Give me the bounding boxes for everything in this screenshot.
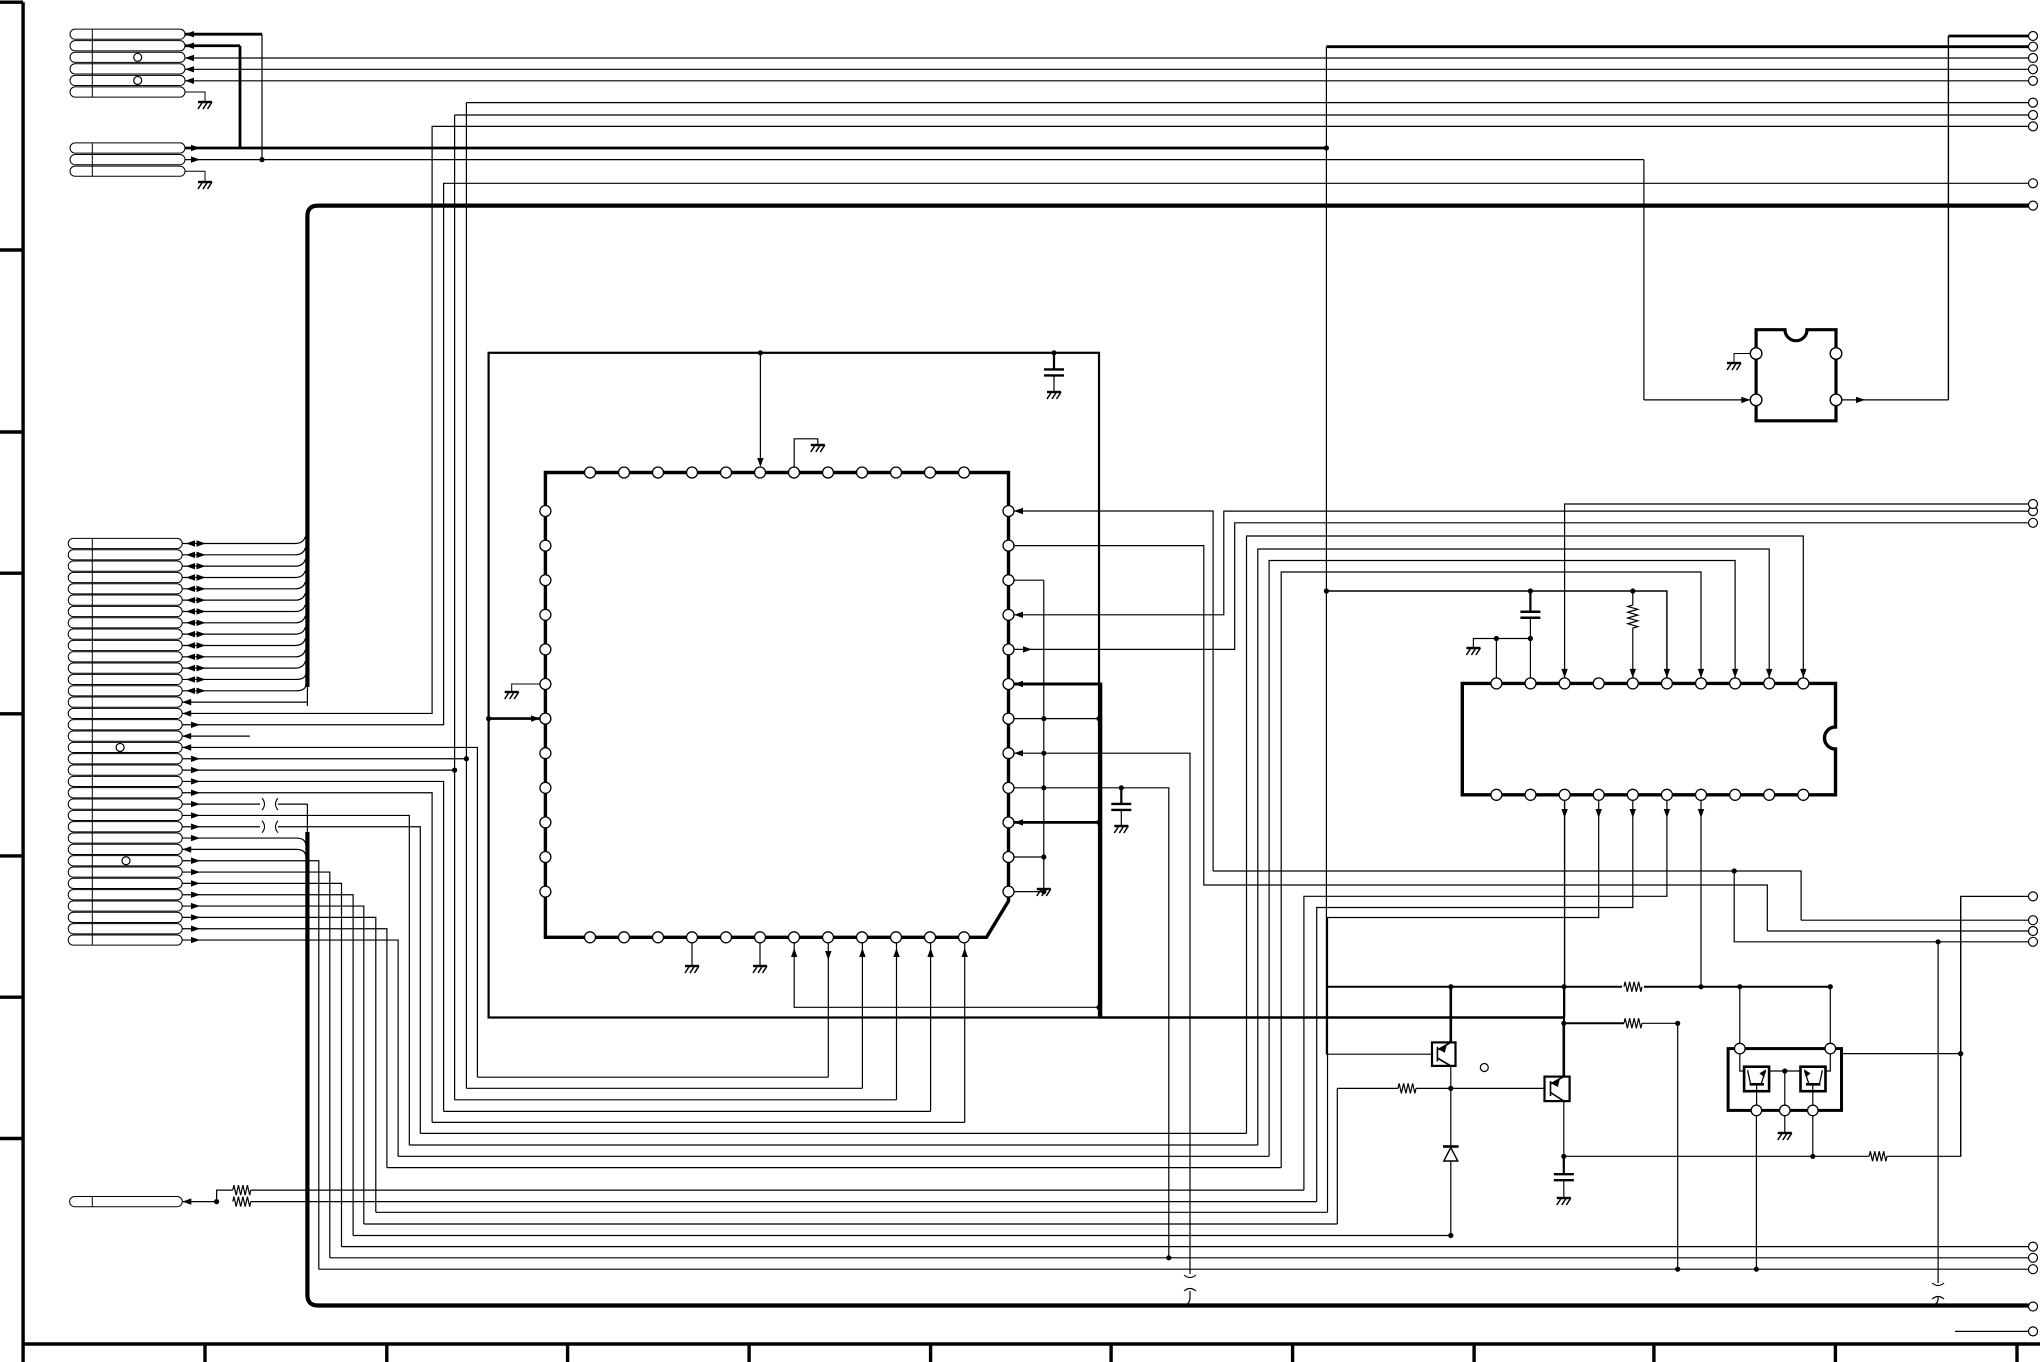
IC1 right pin 10 — [1003, 817, 1014, 828]
wire CN3 pin 9 into bus — [182, 627, 305, 634]
wire CN3 pin 30 staircase x329.8 — [182, 872, 330, 1258]
transistor Q3 box — [1744, 1067, 1769, 1092]
wire CN3 pin 16 riser x432 to y126.4 — [182, 126, 2028, 713]
wire pack inter-box — [1769, 1070, 1800, 1072]
wire frame left tick 6 — [0, 996, 23, 999]
wire band y1246.6 to circle — [342, 1246, 2029, 1248]
wire pack line y1053.6 to x1960.7 — [1842, 1053, 1961, 1055]
junction dot Q1 emitter node — [1448, 984, 1453, 989]
wire band y1235.5 — [353, 1235, 1451, 1237]
wire CN3 pin 7 into bus — [182, 604, 305, 611]
transistor Q2 box — [1545, 1077, 1570, 1102]
wire CN3 pin 14 into thin x307 b — [182, 685, 306, 691]
junction dot Q2 emitter node — [1561, 1021, 1566, 1026]
wire CN3 pin 24 link tail — [278, 803, 307, 805]
IC1 bottom pin 12 — [959, 932, 970, 943]
arrow netB into X1 pin2 — [1741, 397, 1750, 403]
wire frame bottom tick 1 — [203, 1344, 206, 1362]
resonator X1 pin4 right — [1830, 394, 1842, 406]
wire IC1 bottom pin11 riser — [930, 943, 932, 1112]
wire y1023.3 after R2 — [1642, 1022, 1678, 1024]
wire frame bottom tick 8 — [1472, 1344, 1475, 1362]
wire frame left tick 5 — [0, 854, 23, 857]
pack bottom pin right — [1808, 1105, 1819, 1116]
IC1 top pin 5 — [721, 467, 732, 478]
IC2 bottom pin 10 — [1798, 789, 1809, 800]
connector CN3 pin 9 pill — [68, 629, 182, 639]
wire Q4 emitter to pack pin5 — [1812, 1084, 1814, 1105]
wire net B vertical x1643 — [1643, 160, 1645, 400]
connector CN3 pin 36 pill — [68, 935, 182, 945]
connector CN3 pin 3 pill — [68, 561, 182, 571]
terminal circle right y102.6 — [2029, 98, 2038, 107]
wire band y1111.4 — [444, 1110, 931, 1112]
connector CN3 pin 31 pill — [68, 878, 182, 888]
connector CN3 pin 28 pill — [68, 844, 182, 854]
wire y871 across — [1213, 871, 1801, 920]
wire vertical x466.4 y102.6 to band — [465, 103, 467, 1089]
junction dot x1960.7 pack line — [1958, 1051, 1963, 1056]
wire pack bottom-left pin drop — [1755, 1116, 1757, 1270]
wire IC1 bottom pin12 riser — [964, 943, 966, 1123]
wire CN3 pin 20 join x466.4 — [182, 758, 466, 760]
wire CN3 pin 27 curve into bus2 — [182, 838, 306, 845]
IC1 body square — [545, 473, 1008, 938]
terminal circle right y126.4 — [2029, 122, 2038, 131]
IC1 top pin 6 — [755, 467, 766, 478]
connector CN1 pin 4 pill — [70, 64, 185, 74]
transistor Q4 symbol — [1805, 1070, 1823, 1084]
IC2 bottom pin 2 — [1525, 789, 1536, 800]
wire diode down to band — [1450, 1161, 1452, 1236]
IC1 bottom pin 11 — [925, 932, 936, 943]
IC1 bottom pin 8 — [823, 932, 834, 943]
wire x1938 drop — [1937, 942, 1939, 1283]
wire pack bottom-mid pin to ground — [1784, 1116, 1786, 1133]
wire net B CN2 pin2 to x1643 — [185, 159, 1644, 161]
wire frame bottom tick 11 — [2015, 1344, 2018, 1362]
transistor Q1 symbol — [1437, 1042, 1450, 1066]
IC2 top pin 10 — [1798, 678, 1809, 689]
junction dot pack mid — [1782, 1068, 1787, 1073]
connector CN3 pin 24 pill — [68, 799, 182, 809]
IC1 right pin 8 — [1003, 748, 1014, 759]
wire vertical x262 pin1 branch — [261, 34, 263, 159]
IC1 top pin 7 — [789, 467, 800, 478]
terminal circle right pin3 — [2029, 54, 2038, 63]
connector CN3 test point circle B — [122, 857, 130, 865]
wire band y1269.2 to circle — [319, 1268, 2029, 1270]
wire CN3 pin 23 down x432.1 to band — [182, 793, 432, 1123]
connector CN3 pin 29 pill — [68, 856, 182, 866]
IC1 top pin 1 — [585, 467, 596, 478]
IC2 bottom pin 3 — [1559, 789, 1570, 800]
IC1 bottom pin 1 — [585, 932, 596, 943]
IC1 bottom pin 5 — [721, 932, 732, 943]
wire IC2 pins1-2 gnd line y638.5 — [1473, 639, 1530, 649]
junction dot pack pin5 — [1810, 1154, 1815, 1159]
connector CN3 pin 2 pill — [68, 550, 182, 560]
wire y115 to right edge — [455, 114, 2029, 116]
junction dot x1564 top — [1561, 984, 1566, 989]
wire R3 corner drop x1337.3 — [1336, 1088, 1338, 1224]
wire CN3 pin 2 into bus — [182, 548, 305, 555]
terminal circle right y1331.4 — [2029, 1327, 2038, 1336]
ground IC1 top pin7 L-wire — [794, 439, 818, 467]
connector CN3 pin 27 pill — [68, 833, 182, 843]
ground C4 — [1557, 1198, 1571, 1205]
IC1 left pin 4 — [540, 609, 551, 620]
connector CN2 divider — [91, 143, 93, 176]
connector CN3 pin 26 pill — [68, 822, 182, 832]
wire IC1 right pin12 to gnd chain — [1014, 891, 1044, 893]
terminal circle right y46.7 — [2029, 42, 2038, 51]
wire frame bottom tick 6 — [1109, 1344, 1112, 1362]
wire IC2 bottom pin4 to band — [1328, 800, 1599, 1212]
connector CN3 pin 22 pill — [68, 776, 182, 786]
wire frame bottom tick 9 — [1652, 1344, 1655, 1362]
wire IC1 right pin10 thick to ring — [1014, 821, 1099, 824]
IC2 bottom pin 7 — [1696, 789, 1707, 800]
connector CN3 pin 32 pill — [68, 890, 182, 900]
wire y931 to right edge — [1767, 930, 2028, 932]
wire CN3 pin 10 into bus — [182, 638, 305, 645]
wire CN4 to junction — [182, 1201, 216, 1203]
pack bottom pin left — [1751, 1105, 1762, 1116]
wire IC1 bottom pin4 ground stub — [691, 943, 693, 966]
junction dot x1938 — [1936, 939, 1941, 944]
connector CN3 pin 19 pill — [68, 742, 182, 752]
thick arrow into IC2 pin x1666.9 — [1664, 669, 1670, 678]
wire CN3 pin 6 into bus — [182, 593, 305, 600]
resistor R1 in y986.7 line — [1622, 980, 1644, 994]
IC1 bottom pin 10 — [891, 932, 902, 943]
wire x1938 into bus — [1930, 1297, 1938, 1306]
wire CN3 pin 8 into bus — [182, 616, 305, 623]
IC2 bottom pin 4 — [1593, 789, 1604, 800]
IC1 right pin 6 — [1003, 679, 1014, 690]
junction dot diode band — [1448, 1233, 1453, 1238]
terminal circle right y1246.6 — [2029, 1242, 2038, 1251]
connector CN3 pin 15 pill — [68, 697, 182, 707]
junction dot IC2 pin7 net — [1698, 984, 1703, 989]
wire x1677.7 drop to band — [1677, 1023, 1679, 1269]
wire IC2 pin3 riser to y504 — [1565, 504, 2029, 678]
connector CN1 test point circle pin5 — [134, 76, 142, 84]
IC1 right pin 2 — [1003, 540, 1014, 551]
bus thick bottom horizontal y1305.5 — [318, 1303, 2029, 1307]
capacitor C3 at x1530.4 — [1528, 588, 1533, 593]
connector CN2 pin 3 pill — [70, 166, 185, 176]
IC1 left pin 2 — [540, 540, 551, 551]
wire net y549 V1257.8 — [1258, 549, 1769, 1145]
pack top pin right — [1825, 1043, 1836, 1054]
resistor R4 vertical x1632.8 — [1630, 588, 1635, 593]
wire thin x307.4 lower segment — [306, 804, 308, 833]
IC1 left pin 12 — [540, 886, 551, 897]
connector CN3 pin 5 pill — [68, 584, 182, 594]
resistor R7 bottom — [233, 1197, 251, 1207]
wire IC1 right pin9 cap branch corner x1168.8 — [1014, 788, 1169, 1258]
wire Q1 collector down — [1450, 1066, 1452, 1147]
wire frame bottom tick 5 — [929, 1344, 932, 1362]
wire x1190 into bottom bus — [1182, 1291, 1190, 1306]
wire IC1 bottom pin10 riser — [896, 943, 898, 1100]
IC1 left pin 8 — [540, 748, 551, 759]
terminal circle right y931 — [2029, 927, 2038, 936]
wire ring to IC1 left pin7 thick arrow — [489, 717, 540, 720]
IC2 top pin 2 — [1525, 678, 1536, 689]
wire band y1088.3 — [466, 1087, 862, 1089]
wire Q2 collector down — [1563, 1101, 1565, 1156]
IC1 right pin 5 — [1003, 644, 1014, 655]
wire CN3 pin 24 link to x307 — [182, 803, 260, 805]
IC1 right pin 3 — [1003, 575, 1014, 586]
junction dot netA at x1326 — [1324, 145, 1329, 150]
wire CN2 pin3 to ground — [185, 171, 205, 182]
connector CN1 pin 6 pill — [70, 87, 185, 97]
IC1 left pin 7 — [540, 713, 551, 724]
junction dot IC2 pin1 gnd — [1494, 636, 1499, 641]
wire IC2 pin2 drop — [1529, 639, 1531, 678]
IC2 body — [1462, 683, 1835, 794]
ground IC1 bottom pin6 — [753, 966, 767, 973]
wire IC1 right pin1 to x1213 — [1014, 511, 1213, 871]
wire vertical x1948 to resonator — [1947, 36, 1949, 400]
connector CN1 pin 2 pill — [70, 41, 185, 51]
connector CN3 pin 25 pill — [68, 810, 182, 820]
wire IC1 right pin11 to gnd chain — [1014, 856, 1044, 858]
terminal circle right y1257.8 — [2029, 1253, 2038, 1262]
board link symbol x1190 — [1184, 1275, 1196, 1291]
wire band y1122.4 — [432, 1121, 965, 1123]
IC1 left pin 5 — [540, 644, 551, 655]
wire IC1 bottom pin8 riser — [827, 943, 829, 1077]
connector CN3 pin 11 pill — [68, 652, 182, 662]
wire netB horizontal into X1 pin2 — [1644, 399, 1750, 401]
terminal circle right bottom bus — [2029, 1302, 2038, 1311]
wire Q1 base — [1326, 1053, 1432, 1055]
connector CN3 pin 35 pill — [68, 924, 182, 934]
connector CN3 pin 1 pill — [68, 538, 182, 548]
wire CN4 branch up — [217, 1190, 233, 1202]
connector CN3 pin 21 pill — [68, 765, 182, 775]
IC1 left pin 11 — [540, 852, 551, 863]
IC1 right pin 4 — [1003, 609, 1014, 620]
pack bottom pin mid — [1780, 1105, 1791, 1116]
connector CN3 pin 23 pill — [68, 788, 182, 798]
connector CN4 divider — [91, 1197, 93, 1207]
IC2 top pin 1 — [1491, 678, 1502, 689]
IC1 right pin 7 — [1003, 713, 1014, 724]
wire frame top tick — [0, 1, 23, 4]
wire CN3 pin 17 riser x443.6 to y183.3 — [182, 183, 2028, 724]
wire Q2 emitter thick up — [1563, 1023, 1566, 1076]
wire IC2 bottom pin5 to band — [1317, 800, 1633, 1201]
terminal circle right y504 — [2029, 500, 2038, 509]
IC1 top pin 10 — [891, 467, 902, 478]
connector CN3 pin 12 pill — [68, 663, 182, 673]
transistor Q1 box — [1432, 1042, 1456, 1066]
wire Q1 emitter thick — [1450, 987, 1453, 1043]
ground C1 — [1047, 392, 1061, 399]
IC2 bottom pin 8 — [1730, 789, 1741, 800]
resonator X1 pin3 right — [1830, 348, 1842, 360]
ground chain bottom — [1037, 889, 1051, 896]
wire frame left tick 1 — [0, 248, 23, 251]
connector CN3 divider — [91, 539, 93, 945]
wire pack top-right pin riser — [1829, 987, 1831, 1044]
IC2 top pin 7 — [1696, 678, 1707, 689]
wire CN1 pin5 long to right edge — [185, 80, 2029, 82]
wire net y560.5 V1269.1 — [1269, 561, 1735, 1157]
IC1 right pin 1 — [1003, 506, 1014, 517]
wire IC1 bottom pin6 ground stub — [759, 943, 761, 966]
capacitor C1 on ring top — [1051, 350, 1056, 355]
wire y1023.3 R2 line — [1564, 1022, 1624, 1024]
ground IC2 top pins — [1466, 648, 1480, 655]
IC1 top pin 11 — [925, 467, 936, 478]
IC2 bottom pin 6 — [1661, 789, 1672, 800]
test point circle near Q1 — [1480, 1064, 1488, 1072]
wire pack bottom-right pin drop — [1812, 1116, 1814, 1157]
pack top pin left — [1735, 1043, 1746, 1054]
IC1 bottom pin 3 — [653, 932, 664, 943]
IC1 right pin 9 — [1003, 782, 1014, 793]
IC1 bottom pin 7 — [789, 932, 800, 943]
terminal circle right pin5 — [2029, 76, 2038, 85]
IC2 top pin 8 — [1730, 678, 1741, 689]
wire CN3 pin 29 staircase x318.8 — [182, 861, 319, 1269]
wire CN3 pin 28 curve into bus2 b — [182, 849, 306, 856]
wire band y1077.2 — [477, 1076, 828, 1078]
wire y591 cap-res line — [1326, 591, 1667, 678]
wire band y1099.8 — [455, 1099, 897, 1101]
wire frame bottom tick 2 — [385, 1344, 388, 1362]
junction dot pack pin1 on y986.7 — [1737, 984, 1742, 989]
IC1 bottom pin 4 — [687, 932, 698, 943]
wire CN3 pin 5 into bus — [182, 582, 305, 589]
wire IC1 right pin5 riser x1234.7 to y522.8 — [1014, 523, 2029, 650]
terminal circle right y896.4 — [2029, 892, 2038, 901]
connector CN3 pin 16 pill — [68, 708, 182, 718]
ground IC1 top — [811, 445, 825, 452]
connector CN3 test point circle A — [116, 743, 124, 751]
IC1 bottom pin 2 — [619, 932, 630, 943]
connector CN3 pin 7 pill — [68, 606, 182, 616]
wire y1331.4 stub to circle — [1955, 1330, 2029, 1332]
IC1 top pin 4 — [687, 467, 698, 478]
wire IC1 right pin4 riser x1223.8 to y511.1 — [1014, 511, 2029, 615]
IC2 top pin 3 — [1559, 678, 1570, 689]
resistor R2 — [1624, 1018, 1642, 1028]
wire vertical x454.6 y115 to band — [454, 115, 456, 1100]
wire CN3 pin 33 staircase x363.8 — [182, 906, 364, 1224]
power ring around IC1 — [489, 353, 1099, 1018]
resistor R5 — [1869, 1151, 1887, 1161]
wire frame left border — [21, 2, 24, 1362]
connector CN3 pin 30 pill — [68, 867, 182, 877]
terminal circle right y1269.2 — [2029, 1265, 2038, 1274]
ground C2 — [1114, 826, 1128, 833]
wire CN3 pin 21 join x454.6 — [182, 769, 454, 771]
terminal circle right bus — [2029, 201, 2038, 210]
resonator X1 pin2 left — [1750, 394, 1762, 406]
transistor Q4 box — [1801, 1067, 1826, 1092]
wire CN3 pin 34 staircase x375.8 — [182, 917, 376, 1212]
IC1 left pin 9 — [540, 782, 551, 793]
connector CN2 pin 2 pill — [70, 155, 185, 165]
IC1 bottom pin 6 — [755, 932, 766, 943]
connector CN3 pin 20 pill — [68, 754, 182, 764]
connector CN2 pin 1 pill — [70, 143, 185, 153]
wire band y1145 — [409, 1144, 1258, 1146]
wire frame left tick 2 — [0, 430, 23, 433]
terminal circle right y36 — [2029, 32, 2038, 41]
junction dot Q2 collector — [1561, 1154, 1566, 1159]
resistor R6 top — [233, 1185, 251, 1195]
wire band y1212.3 — [376, 1211, 1328, 1213]
wire y986.7 collector feed line — [1326, 986, 1830, 988]
terminal circle right y920.2 — [2029, 916, 2038, 925]
wire band y1224 — [364, 1223, 1338, 1225]
wire IC2 bottom pin6 to band — [1304, 800, 1667, 1190]
wire frame bottom tick 10 — [1834, 1344, 1837, 1362]
wire net A thick CN2 pin1 to x1326 — [185, 147, 1326, 150]
wire CN3 pin 35 staircase x386.9 — [182, 929, 387, 1168]
wire frame bottom tick 3 — [566, 1344, 569, 1362]
bus thick vertical x307.4 lower — [307, 832, 318, 1306]
board link symbol x1938 — [1932, 1283, 1944, 1299]
wire CN1 pin4 long to right edge — [185, 68, 2029, 70]
wire x1960.7 segment — [1960, 896, 1962, 1156]
IC2 top pin 4 — [1593, 678, 1604, 689]
IC2 top pin 9 — [1764, 678, 1775, 689]
wire CN3 pin 19 down x477.4 to band — [182, 747, 477, 1077]
resonator X1 body — [1756, 330, 1836, 421]
junction dot C3 bottom — [1528, 636, 1533, 641]
transistor Q3 symbol — [1748, 1070, 1766, 1084]
connector CN1 divider — [91, 29, 93, 97]
IC1 top pin 3 — [653, 467, 664, 478]
wire vertical x240 thick pin2 to netA — [239, 46, 242, 148]
wire pack top-left pin riser — [1739, 987, 1741, 1044]
connector CN3 pin 6 pill — [68, 595, 182, 605]
wire frame left tick 7 — [0, 1137, 23, 1140]
wire CN1 pin2 thick to x240 — [185, 44, 240, 47]
wire CN3 pin 26 link to x420.3 — [182, 826, 260, 828]
wire IC1 right pin3 corner to gnd chain — [1014, 579, 1044, 581]
junction dot y591 at x1326.4 — [1324, 588, 1329, 593]
wire x1734.2 drop to y941.8 — [1734, 871, 2028, 942]
IC1 left pin 1 — [540, 506, 551, 517]
IC1 left pin 3 — [540, 575, 551, 586]
resistor R3 line — [1337, 1087, 1398, 1089]
wire CN3 pin 22 down x443.6 to band — [182, 781, 443, 1111]
IC1 bottom pin 9 — [857, 932, 868, 943]
wire pack pin2 into Q4 — [1826, 1054, 1830, 1071]
IC1 top pin 2 — [619, 467, 630, 478]
connector CN3 pin 8 pill — [68, 618, 182, 628]
wire Q2 collector line y1156.3 — [1564, 1155, 1869, 1157]
IC1 left pin 6 — [540, 679, 551, 690]
junction dot x1677.7 band — [1675, 1267, 1680, 1272]
wire CN3 pin 36 staircase x398.1 — [182, 940, 398, 1156]
IC2 bottom pin 1 — [1491, 789, 1502, 800]
connector CN3 pin 34 pill — [68, 912, 182, 922]
junction dot x454.6 — [452, 768, 457, 773]
terminal circle right y115 — [2029, 111, 2038, 120]
